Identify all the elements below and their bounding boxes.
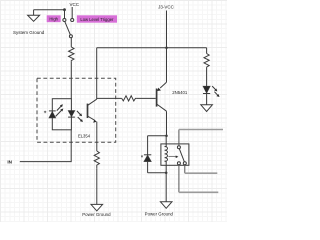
emission arrow b2: [78, 117, 83, 122]
relay K1 coil wire from collector node: [165, 136, 167, 147]
wire diode top: [147, 136, 149, 155]
emission arrow a1: [57, 104, 63, 110]
svg-text:System Ground: System Ground: [13, 30, 45, 35]
emission arrow c2: [214, 92, 219, 97]
relay K1 link arrowhead: [176, 156, 179, 159]
relay K1 outline: [161, 144, 189, 165]
LED D1b cathode bar: [68, 116, 75, 118]
LED D1b (down): [68, 111, 75, 117]
diode D2 cathode bar: [144, 154, 151, 156]
ground (Power Ground opto): [91, 204, 103, 211]
emission arrow b1: [77, 111, 82, 116]
resistor R2: [122, 96, 137, 101]
wire collector node to diode: [148, 135, 167, 137]
junction corner dot: [63, 8, 66, 11]
switch SW1 common terminal: [69, 35, 72, 38]
phototransistor collector arm: [88, 99, 97, 105]
resistor R3: [204, 54, 209, 68]
wire NC out (gray): [185, 172, 218, 174]
junction dot rail: [165, 46, 168, 49]
transistor Q1 emitter arm: [160, 82, 166, 88]
ground (Power Ground relay): [160, 202, 172, 209]
junction dot collector node: [165, 134, 168, 137]
transistor Q1 emitter arrowhead (PNP): [157, 88, 161, 91]
relay K1 coil: [165, 147, 168, 162]
resistor R4: [94, 151, 99, 168]
wire diode to coil ground node: [148, 172, 167, 174]
wire Q1 collector down: [166, 111, 168, 136]
emission arrow a2: [56, 109, 64, 117]
svg-text:VCC: VCC: [69, 2, 79, 7]
wire NO out (gray): [179, 191, 218, 193]
svg-text:High: High: [49, 17, 58, 22]
phototransistor emitter arrowhead: [93, 120, 97, 123]
wire relay NO down: [178, 165, 180, 193]
svg-text:Power Ground: Power Ground: [145, 211, 174, 216]
wire base resistor R2 left: [97, 97, 122, 99]
LED D1a cathode bar: [49, 110, 56, 112]
wire diode bottom: [147, 162, 149, 173]
relay K1 NC terminal: [183, 162, 186, 165]
wire VCC down to switch right throw: [71, 7, 73, 18]
label Low Level Trigger (highlight): [77, 15, 117, 22]
phototransistor base bar: [87, 104, 89, 118]
switch SW1 left throw terminal: [63, 18, 66, 21]
relay K1 common terminal: [177, 146, 180, 149]
LED D3 (down): [203, 86, 210, 93]
svg-text:J3-VCC: J3-VCC: [158, 4, 175, 9]
plus polarity mark: [44, 111, 46, 113]
LED D3 cathode bar: [203, 93, 210, 95]
relay K1 NO terminal: [177, 162, 180, 165]
wire common out (gray): [179, 129, 223, 131]
label High (highlight): [47, 15, 61, 22]
svg-text:Low Level Trigger: Low Level Trigger: [80, 17, 114, 22]
wire rail to Q1 emitter: [166, 48, 168, 83]
svg-text:EL354: EL354: [78, 133, 91, 138]
relay K1 coil bottom wire: [165, 161, 167, 173]
svg-text:Power Ground: Power Ground: [82, 212, 111, 217]
wire R1 to opto input: [70, 61, 72, 98]
wire LED D3 down: [206, 94, 208, 105]
switch SW1 right throw terminal: [71, 18, 74, 21]
wire opto collector up: [96, 48, 98, 99]
wire relay common up: [178, 130, 180, 146]
junction dot coil bottom: [165, 172, 168, 175]
wire rail corner to R3: [206, 48, 208, 54]
ground (System Ground symbol): [33, 10, 35, 16]
svg-text:2N5401: 2N5401: [172, 90, 188, 95]
wire R2 to base: [137, 97, 156, 99]
LED D1a (up): [49, 112, 56, 118]
wire R4 to ground: [96, 168, 98, 204]
diode D2 (flyback, up): [144, 155, 151, 162]
wire IN: [20, 130, 71, 162]
wire J3-VCC down: [166, 11, 168, 48]
wire switch common to R1: [70, 38, 72, 47]
wire top rail: [97, 47, 207, 49]
emission arrow c1: [212, 86, 217, 91]
wire relay NC down: [184, 165, 186, 173]
wire relay coil ground drop: [165, 173, 167, 202]
ground (LED return): [201, 105, 213, 112]
opto input loop wire rectangle: [52, 99, 71, 130]
diode D2 marking: [141, 155, 143, 157]
switch SW1 blade: [65, 22, 71, 35]
phototransistor emitter arm: [88, 116, 96, 121]
relay K1 mechanical link: [168, 156, 176, 158]
transistor Q1 base bar: [156, 89, 158, 107]
wire opto emitter down: [96, 122, 98, 151]
svg-text:IN: IN: [7, 160, 12, 165]
transistor Q1 collector arm: [157, 104, 167, 111]
resistor R1: [69, 47, 74, 61]
opto-isolator U1 dashed outline: [37, 78, 116, 142]
wire R3 to LED D3: [206, 68, 208, 86]
wire switch left throw to system ground: [34, 10, 65, 19]
relay K1 blade: [179, 149, 184, 162]
